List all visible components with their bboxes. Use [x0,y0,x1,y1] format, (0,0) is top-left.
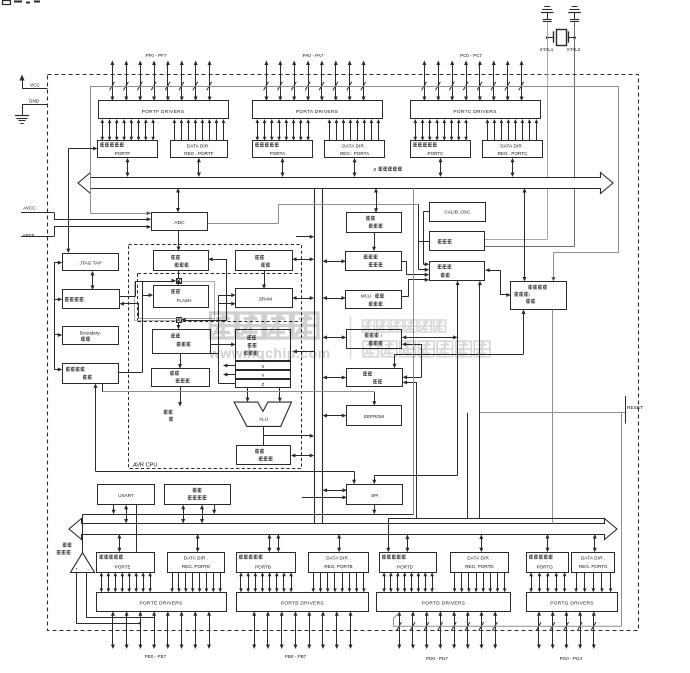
wire peripheral line (comparator) [83,514,414,516]
wire rail to general registers [297,351,315,353]
watermark line 1 [363,320,446,332]
wire data dir reg PORTF to data bus [198,161,200,173]
wire USART taps [112,505,116,515]
wire data bus to internal oscillator [376,192,378,210]
wire data dir reg PORTC to data bus [512,161,514,173]
wire RESET to bottom ports [621,413,623,627]
wire data dir reg PORTA to drivers (8 arrows) [328,119,381,141]
wire program counter to flash [178,270,180,278]
register Z [236,380,291,388]
wire CALIB OSC to timing [424,212,430,267]
crystal Y1 [546,30,576,46]
svg-text:DATA DIR .: DATA DIR . [500,143,525,148]
wire XTAL1 to oscillator [547,22,549,240]
watermark line 2 [363,341,490,357]
wire timing to wake-up unit [485,268,511,297]
svg-text:XTAL2: XTAL2 [567,47,581,52]
svg-text:REG. PORTD: REG. PORTD [465,564,494,569]
block internal oscillator [347,213,402,233]
wire programming logic to EEPROM [103,383,377,405]
label control lines [164,410,173,422]
wire drivers to data register PORTF (8 double arrows) [101,119,155,141]
block PORTE DRIVERS [97,593,227,612]
wire MCU control to timing [402,278,430,297]
bus 8-bit data bus (upper) [78,173,613,194]
svg-text:XTAL1: XTAL1 [540,47,554,52]
svg-text:PD0 - PD7: PD0 - PD7 [426,656,448,661]
wire interrupt to distribution line [403,380,417,518]
register X [236,362,291,370]
wire SRAM to rail [296,298,311,300]
wire data bus to ADC [178,192,180,210]
wire data bus to wake-up unit [524,192,526,279]
wire data dir reg PORTE to drivers [170,572,222,592]
wire data dir reg PORTC to drivers (8 arrows) [486,119,539,141]
svg-text:EEPROM: EEPROM [364,414,384,419]
svg-text:PORTG DRIVERS: PORTG DRIVERS [550,601,594,607]
svg-text:www.hqchip.com: www.hqchip.com [208,345,331,361]
GND ground symbol [15,99,48,124]
block PORTF DRIVERS [99,101,229,119]
block PORTA DRIVERS [253,101,383,119]
wire rail to interrupt unit [326,377,343,379]
bus label 8-bit data bus [374,167,403,172]
svg-text:REG. PORTB: REG. PORTB [324,564,352,569]
svg-text:PORTF: PORTF [115,151,131,156]
svg-text:VCC: VCC [30,83,40,88]
wire pin line down to ADC [90,86,92,213]
svg-text:RESET: RESET [627,405,643,411]
wire XTAL2 to oscillator [574,22,576,246]
svg-text:REG. PORTG: REG. PORTG [579,564,608,569]
register Y [236,371,291,379]
block watchdog timer [346,252,402,271]
block data register PORTE [97,553,155,573]
svg-text:PORTE DRIVERS: PORTE DRIVERS [140,601,183,607]
block stack pointer [236,251,293,271]
wire ADC to oscillator control (gray) [208,223,279,225]
block data dir reg PORTG [572,553,615,573]
wire JTAG trunk [54,261,62,372]
block PORTD DRIVERS [377,593,511,612]
wire wake-up drop to lower bus [552,310,554,524]
bus 8-bit data bus (lower) [69,519,617,540]
wire rail to SPI (2 lines) [326,490,344,492]
block oscillator [430,232,485,251]
svg-text:SRAM: SRAM [259,297,272,302]
svg-text:SPI: SPI [371,493,378,498]
svg-text:PORTF DRIVERS: PORTF DRIVERS [142,109,185,115]
wire port E pin arrows (bottom) [111,611,211,649]
svg-text:−: − [87,566,90,571]
block MCU control register [346,291,402,309]
svg-text:FLASH: FLASH [177,298,192,303]
block data dir reg PORTD [451,553,509,573]
block data register PORTC [411,141,471,158]
block on-chip debug [63,290,120,309]
svg-text:DATA DIR .: DATA DIR . [467,556,492,561]
wire up into programming logic [94,383,98,471]
block instruction decoder [152,369,210,387]
svg-text:PORTC: PORTC [428,151,445,156]
wire data register PORTG to drivers [529,572,566,592]
block data register PORTG [527,553,569,573]
svg-text:Y: Y [261,373,264,378]
svg-text:DATA DIR .: DATA DIR . [326,556,351,561]
wire port F register to JTAG TAP [66,147,97,254]
wire on-chip debug to flash latch [119,279,176,297]
svg-text:USART: USART [118,493,134,498]
wire instruction register to instruction decoder [180,354,182,365]
wire gray vertical from bus [413,188,415,514]
wire data register PORTC to data bus [440,161,442,173]
wire flash select loop [181,257,227,322]
wire USART to PORTE register [136,505,138,552]
block data dir reg PORTF [171,141,228,158]
wire drivers to data register PORTC (8 double arrows) [414,119,468,141]
block SRAM [236,289,293,308]
wire watchdog to timing [402,261,430,276]
block data dir reg PORTA [325,141,385,158]
wire port B pin arrows (bottom) [252,611,352,649]
svg-text:CALIB. OSC: CALIB. OSC [445,210,471,215]
svg-text:REG. PORTE: REG. PORTE [182,564,210,569]
block instruction register [153,330,211,354]
svg-text:PF0 - PF7: PF0 - PF7 [146,53,167,58]
block data register PORTB [237,553,296,573]
svg-text:PORTB: PORTB [255,565,271,570]
block data dir reg PORTB [309,553,369,573]
block general purpose registers [236,330,291,361]
wire flash access to on-chip debug [119,302,214,319]
block boundary-scan [63,327,119,345]
node flash address latch [176,278,182,283]
svg-text:PE0 - PE7: PE0 - PE7 [145,654,167,659]
VCC supply symbol [19,75,47,89]
bus vertical rail right [322,188,324,524]
block two-wire serial interface [165,485,231,505]
wire bus to PORTE registers [119,538,121,549]
svg-text:PORTC DRIVERS: PORTC DRIVERS [453,109,496,115]
wire data register PORTD to drivers [382,572,434,592]
svg-text:AVR CPU: AVR CPU [133,463,157,469]
block data register PORTD [380,553,437,573]
svg-text:PORTA DRIVERS: PORTA DRIVERS [296,109,338,115]
wire data dir reg PORTD to drivers [453,572,507,592]
wire into rail at 237 [296,236,310,238]
block data dir reg PORTE [168,553,225,573]
label analog comparator [57,543,72,555]
wire data dir reg PORTF to drivers (8 arrows) [173,119,226,141]
block programming logic [63,364,119,384]
wire data register PORTA to data bus [282,161,284,173]
block wake-up control unit [511,282,567,310]
wire bottom crossing line [394,613,622,626]
wire data dir reg PORTG to drivers [574,572,612,592]
svg-text:PORTE: PORTE [115,565,131,570]
block USART [98,485,155,505]
block PORTG DRIVERS [527,593,618,612]
svg-text:ADC: ADC [174,220,185,226]
wire bus to PORTB registers [269,538,271,549]
pin AREF [21,225,151,238]
svg-text:DATA DIR .: DATA DIR . [342,143,367,148]
wire instruction decoder to control lines [180,387,182,403]
svg-text:Boundary-: Boundary- [80,331,102,336]
wire ADC to program counter [178,231,180,247]
block ADC [152,213,208,231]
wire data register PORTB to drivers [239,572,293,592]
svg-text:PORTD DRIVERS: PORTD DRIVERS [422,601,465,607]
wire stack pointer to rail [296,259,311,261]
wire comparator inputs [76,573,154,625]
wire oscillator to timing [419,204,430,271]
wire port C pin arrows [422,61,524,102]
svg-text:X: X [261,364,264,369]
wire programming logic to flash [119,281,153,372]
wire data register PORTF to data bus [127,161,129,173]
wire bus to PORTG registers [547,538,549,549]
block SPI [347,485,403,505]
block EEPROM [347,406,402,426]
block timer/counters [347,330,402,349]
pin AVCC [21,205,151,221]
wire wake-up to interrupt unit [393,310,526,369]
ground (XTAL2 cap) [568,7,581,22]
svg-text:+: + [75,566,78,571]
wire SPI to lower bus [374,505,376,511]
wire data register PORTE to drivers [100,572,152,592]
svg-text:PG0 - PG4: PG0 - PG4 [560,656,583,661]
block data register PORTA [253,141,313,158]
block CALIB. OSC [430,203,486,222]
svg-text:REG . PORTA: REG . PORTA [340,151,370,156]
wire port A pin arrows [264,61,366,102]
svg-text:MCU: MCU [361,294,371,299]
watermark logo text [208,313,490,361]
ALU [234,402,291,426]
wire rail to timer/counters [326,337,343,339]
svg-text:Z: Z [262,382,265,387]
block program counter [154,251,209,271]
wire ALU to data bus rail [264,435,311,437]
block timing and control [430,262,485,281]
svg-text:8: 8 [374,167,377,172]
wire TWI taps [183,508,185,520]
wire JTAG TAP to on-chip debug [92,274,94,286]
wire instruction register to registers [211,344,231,346]
wire timing control trunk 1 (to SPI and timer) [372,281,459,485]
bus vertical rail left [314,188,316,524]
wire reset to distribution line [467,413,469,519]
block PORTB DRIVERS [237,593,369,612]
wire flash latch to instruction register [178,322,180,325]
block program flash [154,286,209,308]
svg-text:PORTB DRIVERS: PORTB DRIVERS [281,601,324,607]
flash programming access outline (gray) [135,282,215,321]
wire rail to EEPROM [326,415,343,417]
figure caption (clipped) [3,1,41,5]
wire Z register to ALU [279,388,281,399]
wire stack pointer to SRAM [264,270,266,285]
svg-text:JTAG TAP: JTAG TAP [79,260,101,266]
wire X register to ALU [247,388,249,399]
wire bus to PORTD registers [386,412,604,552]
svg-text:PC0 - PC7: PC0 - PC7 [460,53,482,58]
wire data dir reg PORTA to data bus [354,161,356,173]
svg-text:PA0 - PA7: PA0 - PA7 [303,53,324,58]
svg-text:PORTD: PORTD [397,565,414,570]
svg-text:REG . PORTF: REG . PORTF [184,151,213,156]
svg-text:DATA DIR .: DATA DIR . [581,556,606,561]
node flash data latch [176,317,182,322]
svg-text:AVCC: AVCC [23,205,36,210]
watermark divider [350,316,352,359]
block data dir reg PORTC [483,141,543,158]
block interrupt unit [347,369,403,387]
wire register trunk to SRAM [211,293,236,383]
wire pin crossing line to wake-up unit [90,86,619,88]
wire drivers to data register PORTA (8 double arrows) [256,119,310,141]
svg-text:DATA DIR .: DATA DIR . [184,556,209,561]
block status register [237,446,291,465]
wire rail to watchdog [326,261,342,263]
dashed partition flash row [138,321,302,323]
svg-text:GND: GND [29,99,40,104]
wire timer to timing trunk [405,337,454,339]
svg-text:PB0 - PB7: PB0 - PB7 [285,654,307,659]
wire RESET line [478,281,626,424]
wire port D pin arrows (bottom) [397,611,498,649]
svg-text:PORTG: PORTG [537,565,554,570]
wire wake-up to timer [402,342,422,379]
wire rail to MCU control register [326,298,342,300]
svg-text:ALU: ALU [259,416,268,421]
block JTAG TAP [63,254,119,271]
wire internal oscillator to watchdog [374,232,376,247]
wire data dir reg PORTB to drivers [312,572,366,592]
block data register PORTF [98,141,158,158]
ground (XTAL1 cap) [541,7,554,22]
AVR CPU dashed box [129,245,302,469]
wire port F pin arrows [110,61,212,102]
svg-text:PORTA: PORTA [270,151,286,156]
dashed partition program counter row [138,273,302,275]
outer chip dashed border [48,75,639,631]
svg-text:DATA DIR .: DATA DIR . [187,143,212,148]
svg-text:REG . PORTC: REG . PORTC [498,151,528,156]
block PORTC DRIVERS [411,101,541,119]
wire CPU bottom horizontal [96,471,355,473]
svg-text:AREF: AREF [22,233,34,238]
wire ALU to status register [263,426,265,445]
wire status register to rail [294,455,310,457]
analog comparator [71,514,95,572]
wire port G pin arrows (bottom) [536,611,596,649]
